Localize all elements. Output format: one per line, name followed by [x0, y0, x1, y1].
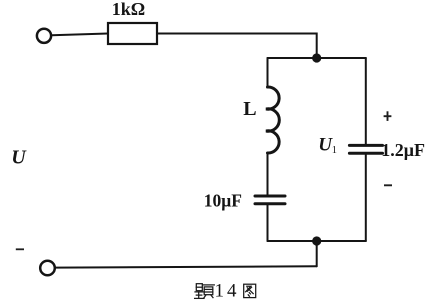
svg-text:1: 1	[332, 145, 337, 156]
svg-text:U: U	[11, 147, 27, 169]
svg-text:4: 4	[227, 280, 237, 301]
svg-text:1kΩ: 1kΩ	[112, 0, 145, 19]
svg-text:1: 1	[215, 280, 225, 301]
svg-text:L: L	[243, 98, 256, 120]
svg-text:10μF: 10μF	[204, 190, 242, 210]
svg-text:1.2μF: 1.2μF	[381, 140, 425, 160]
